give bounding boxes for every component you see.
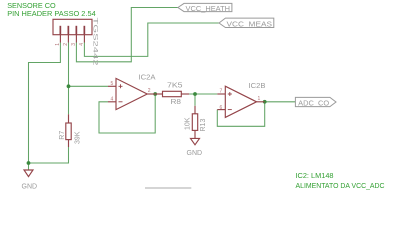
svg-text:IC2: LM148: IC2: LM148 xyxy=(296,171,334,180)
svg-text:VCC_MEAS: VCC_MEAS xyxy=(227,19,273,28)
svg-text:R7: R7 xyxy=(59,131,66,140)
svg-text:ADC_CO: ADC_CO xyxy=(298,98,329,107)
svg-text:7K5: 7K5 xyxy=(167,83,183,90)
svg-text:R8: R8 xyxy=(171,99,182,106)
svg-text:GND: GND xyxy=(22,183,38,190)
svg-text:2: 2 xyxy=(148,88,151,94)
svg-text:TGS2442: TGS2442 xyxy=(92,18,99,66)
svg-text:5: 5 xyxy=(111,81,114,87)
svg-text:PIN HEADER PASSO 2.54: PIN HEADER PASSO 2.54 xyxy=(7,9,96,18)
svg-text:4: 4 xyxy=(111,96,114,102)
svg-text:2: 2 xyxy=(63,43,69,46)
svg-text:IC2A: IC2A xyxy=(139,75,156,82)
svg-text:1: 1 xyxy=(258,96,261,102)
svg-text:R13: R13 xyxy=(200,119,207,132)
svg-text:ALIMENTATO DA VCC_ADC: ALIMENTATO DA VCC_ADC xyxy=(296,181,385,190)
svg-text:VCC_HEATH: VCC_HEATH xyxy=(186,4,231,13)
svg-text:4: 4 xyxy=(79,43,85,46)
svg-text:7: 7 xyxy=(220,89,223,95)
svg-text:IC2B: IC2B xyxy=(249,83,266,90)
svg-text:10K: 10K xyxy=(184,117,191,130)
svg-text:39K: 39K xyxy=(74,131,81,144)
svg-text:6: 6 xyxy=(220,105,223,111)
svg-text:GND: GND xyxy=(187,150,203,157)
svg-text:1: 1 xyxy=(55,43,61,46)
svg-text:3: 3 xyxy=(71,43,77,46)
